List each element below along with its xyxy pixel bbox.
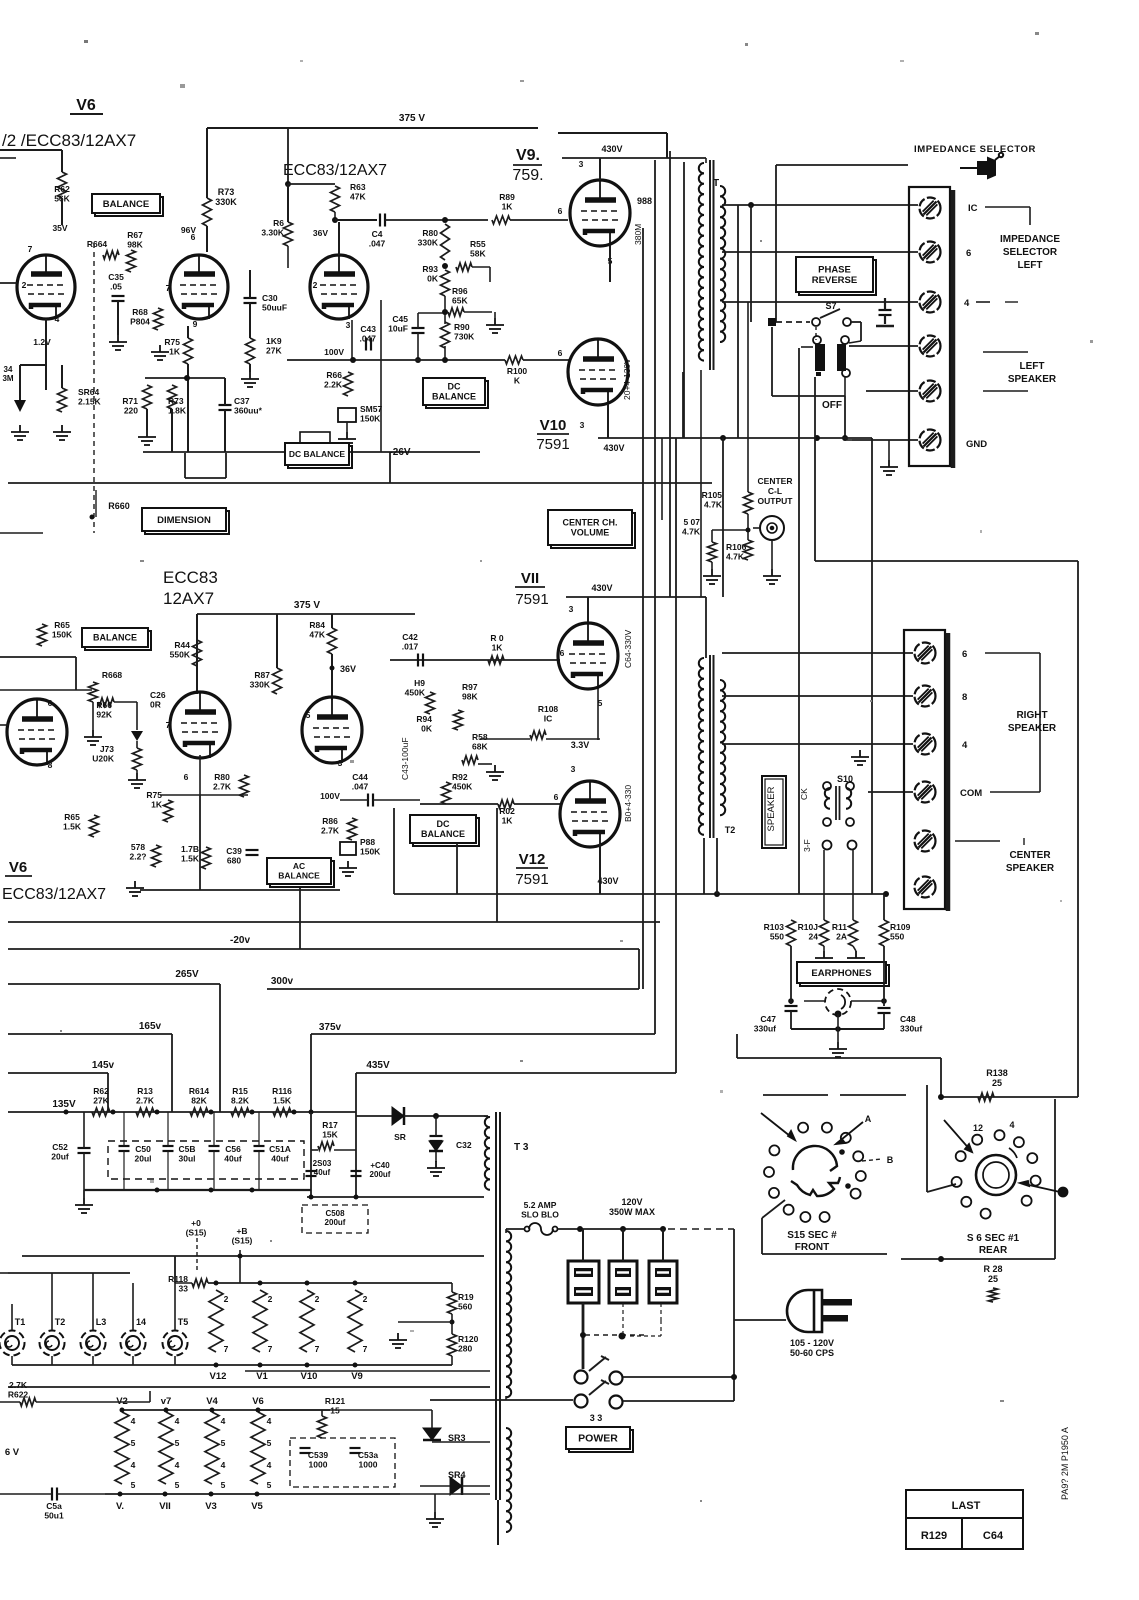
switch S3 contact b2 xyxy=(610,1396,623,1409)
wire R55 right xyxy=(472,266,490,268)
dc tab xyxy=(300,432,330,444)
capacitor C32a xyxy=(430,1136,443,1141)
svg-text:C50: C50 xyxy=(135,1144,151,1154)
svg-text:R13: R13 xyxy=(137,1086,153,1096)
junction C32 xyxy=(433,1113,439,1119)
svg-text:VOLUME: VOLUME xyxy=(571,528,610,538)
wire x137 down xyxy=(136,702,138,730)
AC rail top xyxy=(558,1228,665,1230)
wire R107 top xyxy=(711,530,713,542)
S15 contact 12 xyxy=(820,1212,830,1222)
junction y438 a xyxy=(720,435,726,441)
svg-text:430V: 430V xyxy=(603,443,624,453)
svg-text:1000: 1000 xyxy=(309,1460,328,1470)
svg-text:BALANCE: BALANCE xyxy=(432,392,476,402)
svg-text:T 3: T 3 xyxy=(514,1142,529,1153)
svg-text:R15: R15 xyxy=(232,1086,248,1096)
wire R120 bot xyxy=(451,1356,453,1365)
capacitor C40 xyxy=(351,1171,362,1176)
svg-text:150K: 150K xyxy=(360,847,381,857)
S15 contact 10 xyxy=(784,1205,794,1215)
svg-text:P804: P804 xyxy=(130,317,150,327)
svg-text:A: A xyxy=(865,1114,872,1124)
S15 contact 5 xyxy=(856,1171,866,1181)
power box xyxy=(566,1427,633,1452)
wire V9 top link drop xyxy=(666,133,668,158)
bus x872 xyxy=(871,438,873,894)
riser R87 xyxy=(276,614,278,668)
junction heater bot V10 xyxy=(305,1363,310,1368)
heater resistor V12 xyxy=(209,1290,223,1352)
resistor R93 xyxy=(441,270,450,296)
wire R75 down xyxy=(187,364,189,452)
svg-text:759.: 759. xyxy=(512,167,543,184)
junction row2 212 xyxy=(210,1408,215,1413)
svg-text:100V: 100V xyxy=(320,791,340,801)
svg-text:C48: C48 xyxy=(900,1014,916,1024)
svg-text:B0+4-330: B0+4-330 xyxy=(623,785,633,822)
tube V6e xyxy=(170,692,230,758)
row2 bus ext xyxy=(400,1493,490,1495)
resistor R89 xyxy=(492,216,510,224)
svg-text:T5: T5 xyxy=(178,1317,189,1327)
S16 pointer right xyxy=(1020,1181,1068,1197)
capacitor C4 xyxy=(380,214,385,227)
svg-text:330uf: 330uf xyxy=(754,1024,776,1034)
svg-text:1K: 1K xyxy=(169,347,181,357)
svg-text:LEFT: LEFT xyxy=(1018,260,1043,271)
scan speck extra 17 xyxy=(1060,900,1062,902)
svg-text:430V: 430V xyxy=(601,144,622,154)
bracket right speaker xyxy=(1039,653,1041,792)
T2 primary top v xyxy=(705,597,707,658)
S7 return bottom xyxy=(772,395,845,397)
svg-text:AC: AC xyxy=(293,861,305,871)
S15 outline top a xyxy=(763,1094,828,1096)
svg-text:6: 6 xyxy=(962,649,967,660)
svg-text:1K: 1K xyxy=(151,800,163,810)
wire cathode left drop xyxy=(19,365,21,400)
lamp T2 xyxy=(40,1331,65,1356)
bus x643 xyxy=(642,228,644,989)
svg-text:2.7K: 2.7K xyxy=(321,826,340,836)
svg-text:LAST: LAST xyxy=(952,1500,981,1512)
svg-text:2A: 2A xyxy=(836,932,847,942)
wire mid left a xyxy=(0,689,92,691)
svg-text:550: 550 xyxy=(890,932,904,942)
svg-text:360uu*: 360uu* xyxy=(234,406,263,416)
S16 outline left v xyxy=(926,1085,928,1192)
svg-text:R62: R62 xyxy=(93,1086,109,1096)
capacitor C42 xyxy=(418,654,423,667)
wire R622 left xyxy=(0,1401,20,1403)
resistor R65b xyxy=(90,815,99,837)
wire R62 top xyxy=(61,150,63,172)
svg-text:R120: R120 xyxy=(458,1334,479,1344)
svg-text:DC: DC xyxy=(448,382,461,392)
riser 435V left xyxy=(355,1073,357,1116)
svg-text:LEFT: LEFT xyxy=(1020,361,1045,372)
ground R64 xyxy=(53,425,71,440)
svg-text:33: 33 xyxy=(179,1284,189,1294)
svg-text:4.7K: 4.7K xyxy=(682,527,701,537)
bus x676 long xyxy=(675,438,677,1073)
svg-text:0K: 0K xyxy=(421,724,433,734)
svg-text:R129: R129 xyxy=(921,1530,947,1542)
svg-text:165v: 165v xyxy=(139,1021,162,1032)
jack center output xyxy=(760,516,784,540)
svg-text:EARPHONES: EARPHONES xyxy=(811,968,871,979)
wire 430V bus y894 xyxy=(394,893,886,895)
svg-text:450K: 450K xyxy=(452,782,473,792)
sel riser 2 xyxy=(622,1229,624,1261)
svg-text:9: 9 xyxy=(193,319,198,329)
svg-text:3: 3 xyxy=(569,604,574,614)
S15 contact 6 xyxy=(851,1189,861,1199)
wire cath bus2 xyxy=(143,451,480,453)
wire R73 to tube B plate xyxy=(206,226,208,252)
resistor R66a xyxy=(344,372,353,396)
V6 lower underline xyxy=(5,875,32,877)
U bottom xyxy=(185,477,226,479)
svg-text:R17: R17 xyxy=(322,1120,338,1130)
svg-text:CENTER: CENTER xyxy=(1009,850,1051,861)
heater top bus xyxy=(22,1255,484,1257)
svg-text:V3: V3 xyxy=(205,1501,217,1512)
resistor R10 xyxy=(488,656,504,664)
junction gnd bus c xyxy=(250,1188,255,1193)
svg-text:2.7K: 2.7K xyxy=(213,782,232,792)
svg-text:330K: 330K xyxy=(215,197,237,207)
svg-text:V6: V6 xyxy=(76,97,96,114)
screw4 wire xyxy=(849,345,918,347)
T3 primary bottom lead xyxy=(430,1399,506,1401)
T1 bottom vert xyxy=(682,372,684,438)
wire C32 gnd xyxy=(435,1152,437,1162)
svg-text:R92: R92 xyxy=(452,772,468,782)
svg-text:2: 2 xyxy=(313,280,318,290)
riser 165v xyxy=(171,1034,173,1112)
sel3 dash corner xyxy=(660,1320,662,1336)
svg-text:1.8K: 1.8K xyxy=(168,406,187,416)
S10 winding right xyxy=(846,788,851,809)
T4 left contact lead xyxy=(801,346,813,348)
svg-text:300v: 300v xyxy=(271,976,294,987)
junction y894 a xyxy=(714,891,720,897)
terminal strip right xyxy=(904,630,945,909)
svg-text:R96: R96 xyxy=(452,286,468,296)
tap T2 screw4 xyxy=(868,791,913,793)
tap T1 to screw2 xyxy=(722,251,918,253)
wire R6 drop xyxy=(287,184,289,222)
svg-text:R664: R664 xyxy=(87,239,108,249)
lamp T1 xyxy=(0,1331,25,1356)
wire T3 prim top xyxy=(505,1229,507,1233)
S16 contact 1 xyxy=(972,1135,982,1145)
resistor R66b xyxy=(98,698,114,706)
scan speck 4 xyxy=(1035,32,1039,35)
scan speck extra 4 xyxy=(480,560,482,562)
wire R668 gnd stem xyxy=(92,702,94,730)
resistor J73 xyxy=(133,748,142,770)
AC cord xyxy=(734,1319,786,1321)
svg-text:50-60 CPS: 50-60 CPS xyxy=(790,1348,834,1358)
tap T1 to screw3 xyxy=(722,301,918,303)
svg-text:8: 8 xyxy=(48,760,53,770)
balance box 2 xyxy=(82,628,151,650)
svg-text:3 3: 3 3 xyxy=(590,1413,603,1423)
tube V6c xyxy=(310,255,368,319)
S16 contact 2 xyxy=(995,1130,1005,1140)
gnd stem strip1 xyxy=(888,440,890,460)
svg-text:150K: 150K xyxy=(360,414,381,424)
svg-text:2.2K: 2.2K xyxy=(324,380,343,390)
heater resistor row2 258 xyxy=(251,1412,265,1484)
svg-text:R65: R65 xyxy=(64,812,80,822)
tube V6d xyxy=(7,699,67,765)
heater return line xyxy=(245,1370,490,1372)
T3 HV top lead xyxy=(484,1116,490,1117)
wire jack gnd stem xyxy=(837,1014,839,1042)
tube V10 7591 xyxy=(568,339,628,405)
junction filter x311 xyxy=(309,1110,314,1115)
S16 contact 3 xyxy=(1014,1137,1024,1147)
S16 outline diag xyxy=(927,1184,956,1192)
scan speck extra 12 xyxy=(980,530,982,533)
svg-text:3: 3 xyxy=(580,420,585,430)
riser x311 xyxy=(310,1112,312,1197)
rail 300v xyxy=(267,988,639,990)
S15 contact 3 xyxy=(841,1133,851,1143)
S7 contact left xyxy=(812,318,820,326)
svg-text:14: 14 xyxy=(136,1317,146,1327)
svg-text:C5B: C5B xyxy=(178,1144,195,1154)
wire 375V mid rail xyxy=(197,613,415,615)
svg-text:R103: R103 xyxy=(764,922,785,932)
svg-text:280: 280 xyxy=(458,1344,472,1354)
svg-text:CENTER CH.: CENTER CH. xyxy=(562,518,617,528)
svg-text:15K: 15K xyxy=(322,1130,338,1140)
ground phones a xyxy=(815,951,833,966)
screw terminal R1 xyxy=(915,643,936,664)
svg-text:27K: 27K xyxy=(93,1096,109,1106)
svg-text:82K: 82K xyxy=(191,1096,207,1106)
svg-text:.017: .017 xyxy=(402,642,419,652)
svg-text:U20K: U20K xyxy=(92,754,115,764)
junction C48 top xyxy=(881,998,887,1004)
svg-text:C37: C37 xyxy=(234,396,250,406)
wire lamp T2 stem xyxy=(51,1356,53,1365)
riser x497 feedback xyxy=(496,808,498,922)
screw terminal L3 xyxy=(920,292,941,313)
svg-text:SR: SR xyxy=(394,1132,406,1142)
resistor R109 xyxy=(880,920,889,946)
lamp L3 xyxy=(81,1331,106,1356)
wire R98 right xyxy=(478,763,492,765)
svg-text:R105: R105 xyxy=(702,490,723,500)
screw terminal R2 xyxy=(915,686,936,707)
S10 term 2 xyxy=(846,782,854,790)
strip1 edge xyxy=(951,190,956,468)
resistor 578 xyxy=(152,845,161,867)
S15 contact 1 xyxy=(798,1123,808,1133)
svg-text:J73: J73 xyxy=(100,744,114,754)
wire R96 right xyxy=(464,311,492,313)
svg-text:V1: V1 xyxy=(256,1371,268,1382)
wire V11 plate xyxy=(587,597,589,624)
T1 primary top lead xyxy=(648,157,706,159)
resistor R90b xyxy=(240,775,249,797)
resistor R75b xyxy=(164,800,173,822)
wire lamp T2 top xyxy=(51,1273,53,1330)
wire R773 down xyxy=(171,409,173,452)
svg-text:50u1: 50u1 xyxy=(44,1511,64,1521)
svg-text:4: 4 xyxy=(131,1416,136,1426)
heater resistor row2 212 xyxy=(205,1412,219,1484)
wire bank stem2 x214 xyxy=(213,1151,215,1190)
wire R119-R120 xyxy=(451,1314,453,1334)
balance box 1 xyxy=(92,194,163,216)
resistor R98 xyxy=(462,756,478,764)
switch S3 contact b1 xyxy=(575,1395,588,1408)
svg-text:20+4-130V: 20+4-130V xyxy=(622,358,632,400)
wire S10 to R10J xyxy=(823,850,825,920)
svg-text:.047: .047 xyxy=(369,239,386,249)
svg-text:330uf: 330uf xyxy=(900,1024,922,1034)
svg-text:6: 6 xyxy=(191,232,196,242)
potentiometer SM57 xyxy=(338,408,356,422)
resistor R68 xyxy=(154,308,163,330)
svg-text:265V: 265V xyxy=(175,969,199,980)
svg-text:SM57: SM57 xyxy=(360,404,382,414)
junction row2 bot 211 xyxy=(209,1492,214,1497)
svg-text:5: 5 xyxy=(267,1480,272,1490)
svg-text:2.7K: 2.7K xyxy=(9,1380,28,1390)
svg-text:CENTER: CENTER xyxy=(758,476,793,486)
svg-text:50uuF: 50uuF xyxy=(262,303,287,313)
svg-text:578: 578 xyxy=(131,842,145,852)
capacitor C45 xyxy=(412,328,425,333)
S10 jack b xyxy=(848,841,857,850)
S16 contact 9 xyxy=(961,1197,971,1207)
T3 filament winding xyxy=(506,1428,511,1532)
S16 contact 7 xyxy=(956,1151,966,1161)
wire V9 top link xyxy=(558,132,667,134)
svg-text:4: 4 xyxy=(962,740,968,751)
svg-text:12: 12 xyxy=(973,1123,983,1133)
T1 secondary winding xyxy=(720,186,725,342)
sel riser 3 xyxy=(662,1229,664,1261)
wire C35 down xyxy=(117,301,119,335)
rectifier SR4 xyxy=(450,1477,462,1495)
svg-text:3.3V: 3.3V xyxy=(571,740,590,750)
stub 10 xyxy=(985,206,1030,208)
wire R138 line xyxy=(941,1096,1078,1098)
wire C37 down xyxy=(224,410,226,452)
node 100V K xyxy=(350,357,356,363)
svg-text:3-F: 3-F xyxy=(802,839,812,852)
V9 underline xyxy=(513,164,542,166)
svg-text:BALANCE: BALANCE xyxy=(278,871,320,881)
svg-text:R02: R02 xyxy=(499,806,515,816)
screw terminal L2 xyxy=(920,242,941,263)
tap T2 screw1 xyxy=(722,652,913,654)
riser x457 mid xyxy=(456,843,458,894)
sel2 dash down xyxy=(622,1303,624,1335)
wire V10 plate down xyxy=(607,404,609,438)
ground heater xyxy=(389,1333,407,1348)
wire S10 to R11 xyxy=(852,850,854,920)
resistor R6 xyxy=(284,222,293,246)
riser 300v xyxy=(638,949,640,989)
svg-text:2.2?: 2.2? xyxy=(129,852,146,862)
resistor R108 xyxy=(530,731,546,739)
resistor R664 xyxy=(103,251,119,259)
svg-text:R73: R73 xyxy=(218,187,235,197)
earphones box xyxy=(797,962,889,986)
resistor R62 xyxy=(92,1108,110,1116)
return line T3 xyxy=(307,1196,484,1198)
sel1 down xyxy=(582,1303,585,1369)
tube V9 7591 xyxy=(570,180,630,246)
svg-text:5: 5 xyxy=(131,1480,136,1490)
svg-text:24: 24 xyxy=(809,932,819,942)
wire R71 down xyxy=(146,409,148,430)
bus x701 xyxy=(700,370,702,597)
wire bank stem x124 xyxy=(123,1112,125,1146)
svg-text:C52: C52 xyxy=(52,1142,68,1152)
junction row2 bot 120 xyxy=(118,1492,123,1497)
wire link y184 xyxy=(288,183,335,185)
svg-text:T2: T2 xyxy=(55,1317,66,1327)
T4 bottom right drop xyxy=(844,377,846,396)
stub cs2 xyxy=(1023,838,1025,845)
S16 pointer left arrow xyxy=(944,1120,972,1152)
resistor R668 xyxy=(89,682,98,702)
svg-text:FRONT: FRONT xyxy=(795,1242,829,1253)
svg-text:1K9: 1K9 xyxy=(266,336,282,346)
resistor R74 xyxy=(246,338,255,364)
svg-text:25: 25 xyxy=(988,1274,998,1284)
svg-text:2: 2 xyxy=(224,1294,229,1304)
S7 contact right xyxy=(843,318,851,326)
wire 430V link xyxy=(562,157,648,159)
scan speck extra 13 xyxy=(270,1240,272,1242)
svg-text:2: 2 xyxy=(22,280,27,290)
svg-text:435V: 435V xyxy=(366,1060,390,1071)
screw6 wire b xyxy=(852,439,918,441)
junction row2 122 xyxy=(120,1408,125,1413)
tube V6b xyxy=(170,255,228,319)
svg-text:6: 6 xyxy=(48,698,53,708)
svg-text:3M: 3M xyxy=(2,374,13,383)
svg-text:V5: V5 xyxy=(251,1501,263,1512)
svg-text:S7: S7 xyxy=(825,301,836,311)
svg-text:4.7K: 4.7K xyxy=(704,500,723,510)
svg-text:40uf: 40uf xyxy=(271,1154,289,1164)
svg-text:4: 4 xyxy=(964,298,970,309)
wire bank stem2 x124 xyxy=(123,1151,125,1190)
heater resistor V1 xyxy=(253,1290,267,1352)
svg-text:DC: DC xyxy=(437,819,450,829)
junction R120 mid xyxy=(450,1320,455,1325)
S15 contact 11 xyxy=(800,1212,810,1222)
junction R75 bus xyxy=(184,375,190,381)
svg-text:5: 5 xyxy=(267,1438,272,1448)
svg-text:65K: 65K xyxy=(452,296,468,306)
dc balance box small xyxy=(285,443,352,468)
junction gnd bus a xyxy=(155,1188,160,1193)
